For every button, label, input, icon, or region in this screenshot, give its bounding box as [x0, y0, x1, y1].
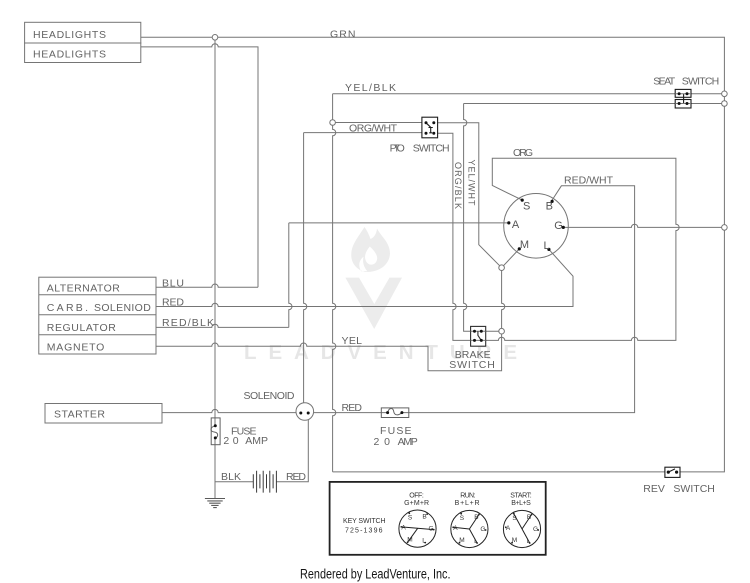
watermark flame logo — [351, 227, 390, 272]
svg-text:YEL: YEL — [342, 335, 363, 347]
svg-text:PTO: PTO — [390, 143, 405, 155]
svg-text:RED: RED — [342, 402, 363, 414]
wire YEL/BLK horizontal to seat switch — [333, 93, 725, 95]
wire ORG/BLK PTO bottom-right to brake switch — [434, 133, 475, 340]
svg-text:B+L+R: B+L+R — [455, 500, 480, 507]
svg-text:SEAT: SEAT — [653, 76, 676, 88]
node at GRN junction — [212, 35, 218, 41]
svg-text:STARTER: STARTER — [54, 409, 105, 421]
node seat upper right — [722, 91, 728, 97]
watermark V logo — [345, 278, 402, 329]
key switch terminal letters — [512, 200, 563, 252]
wire starter to solenoid — [162, 409, 296, 412]
svg-text:GRN: GRN — [330, 29, 356, 41]
key switch info box — [330, 482, 546, 555]
svg-text:G: G — [533, 526, 538, 533]
wire battery BLK — [215, 481, 253, 483]
ground symbol — [205, 499, 225, 508]
svg-text:B+L+S: B+L+S — [511, 500, 531, 507]
svg-text:ORG: ORG — [513, 147, 533, 159]
wire RED to key switch L — [156, 249, 573, 306]
wire headlights2 to vertical 258 — [141, 44, 258, 288]
svg-text:SWITCH: SWITCH — [413, 143, 450, 155]
starter box — [45, 404, 162, 424]
svg-text:B: B — [422, 513, 426, 520]
svg-text:725-1396: 725-1396 — [345, 527, 383, 534]
wire seat switch lower — [464, 103, 725, 105]
wire key switch M to node — [502, 249, 520, 331]
svg-text:SWITCH: SWITCH — [682, 76, 719, 88]
solenoid circle — [296, 403, 314, 421]
svg-text:A: A — [401, 524, 406, 531]
wire ORG brake bottom to key switch S — [481, 158, 679, 340]
svg-text:ORG/BLK: ORG/BLK — [453, 162, 463, 209]
solenoid dots — [299, 412, 309, 415]
svg-text:RED/BLK: RED/BLK — [162, 317, 214, 329]
wire YEL/WHT vertical to brake switch — [464, 104, 475, 332]
svg-text:REV: REV — [643, 483, 665, 495]
node G wire right — [722, 225, 728, 231]
headlights box 1 — [25, 22, 141, 43]
wire ground vertical through fuse — [214, 37, 216, 498]
svg-text:S: S — [460, 515, 465, 522]
svg-text:YEL/WHT: YEL/WHT — [466, 160, 476, 207]
svg-text:A: A — [512, 219, 520, 231]
info circles lever lines — [401, 514, 531, 543]
svg-text:G: G — [480, 526, 485, 533]
wire battery RED to solenoid — [276, 420, 308, 482]
svg-text:B: B — [546, 200, 553, 212]
wire GRN top with right side down to rev switch — [141, 37, 725, 472]
svg-text:ORG/WHT: ORG/WHT — [349, 122, 398, 134]
svg-text:RUN:: RUN: — [460, 492, 475, 499]
seat switch symbol — [675, 89, 691, 108]
svg-text:RED: RED — [162, 297, 184, 309]
wire brake top-right to node — [481, 330, 501, 332]
fuse 2 body — [381, 408, 409, 418]
svg-text:G: G — [554, 220, 563, 232]
fuse 1 body — [211, 408, 409, 445]
node at ORG/WHT junction — [330, 120, 336, 126]
PTO switch symbol — [422, 117, 438, 138]
battery symbol — [253, 471, 276, 493]
svg-text:HEADLIGHTS: HEADLIGHTS — [33, 49, 106, 61]
wire fuse2 left to solenoid — [314, 412, 388, 414]
svg-text:S: S — [523, 201, 530, 213]
svg-text:20: 20 — [374, 436, 391, 448]
svg-text:MAGNETO: MAGNETO — [47, 342, 105, 354]
svg-text:BLU: BLU — [162, 278, 184, 290]
svg-text:YEL/BLK: YEL/BLK — [345, 82, 396, 94]
fuse dots — [214, 411, 404, 439]
node brake junction — [499, 328, 505, 334]
svg-text:CARB.: CARB. — [47, 302, 88, 314]
wire YEL/BLK vertical down to bottom wire — [333, 94, 336, 472]
info circle START — [503, 510, 540, 547]
svg-text:BLK: BLK — [221, 471, 241, 483]
wire PTO right top down to M node — [438, 123, 502, 268]
node M junction — [499, 265, 505, 271]
info circle RUN — [451, 510, 488, 547]
wire bottom from rev switch left — [333, 471, 665, 473]
rotated wire labels — [453, 160, 477, 210]
wire key switch G to right side — [563, 224, 724, 227]
wire RED/BLK to key switch A — [156, 223, 509, 328]
svg-text:M: M — [520, 239, 529, 251]
svg-text:HEADLIGHTS: HEADLIGHTS — [33, 29, 106, 41]
svg-text:SOLENIOD: SOLENIOD — [94, 302, 151, 314]
rev switch symbol — [665, 467, 680, 477]
headlights box 2 — [25, 43, 141, 63]
info circles letters OFF — [401, 513, 538, 544]
wire BLU — [156, 284, 258, 287]
node seat lower right — [722, 101, 728, 107]
key switch circle — [504, 194, 569, 259]
svg-text:L: L — [543, 240, 549, 252]
info circles dots — [400, 512, 539, 544]
svg-text:RED/WHT: RED/WHT — [564, 175, 614, 187]
svg-text:B: B — [474, 514, 478, 521]
info box texts — [343, 492, 532, 534]
wire RED/WHT key switch B to fuse2 — [402, 186, 635, 413]
svg-text:SWITCH: SWITCH — [673, 483, 715, 495]
svg-text:A: A — [506, 525, 511, 532]
wire YEL from magneto to brake node — [156, 331, 502, 371]
svg-text:KEY SWITCH: KEY SWITCH — [343, 518, 386, 525]
brake switch symbol — [471, 326, 486, 346]
svg-text:SWITCH: SWITCH — [449, 359, 495, 371]
svg-text:Rendered by LeadVenture, Inc.: Rendered by LeadVenture, Inc. — [300, 567, 451, 582]
info circle OFF — [399, 510, 436, 547]
wire PTO top-left from node — [333, 122, 426, 124]
svg-text:REGULATOR: REGULATOR — [47, 322, 116, 334]
svg-text:G+M+R: G+M+R — [404, 500, 429, 507]
svg-text:RED: RED — [286, 471, 306, 483]
svg-text:AMP: AMP — [245, 435, 268, 447]
svg-text:ALTERNATOR: ALTERNATOR — [47, 283, 120, 295]
svg-text:OFF:: OFF: — [409, 492, 424, 499]
svg-text:A: A — [453, 525, 458, 532]
svg-text:AMP: AMP — [398, 436, 418, 448]
svg-text:SOLENOID: SOLENOID — [244, 390, 295, 402]
svg-text:S: S — [408, 514, 413, 521]
svg-text:START:: START: — [510, 492, 532, 499]
key switch terminal dots — [507, 199, 565, 251]
wire ORG/WHT to PTO and down to solenoid — [304, 133, 426, 403]
svg-text:B: B — [527, 514, 531, 521]
alternator block boxes — [39, 277, 156, 354]
